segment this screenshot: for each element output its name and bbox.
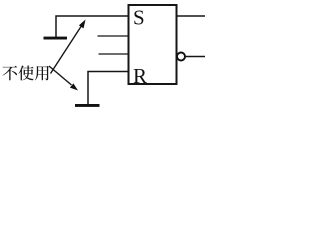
- wire unused input stub 1: [98, 35, 129, 37]
- arrow to R input wire: [49, 66, 78, 91]
- svg-text:S: S: [133, 6, 145, 30]
- arrow to S input wire: [51, 20, 86, 74]
- wire Q output: [177, 15, 205, 17]
- inverter bubble on Q-bar output: [177, 53, 185, 61]
- label 不使用 (not used): [2, 65, 49, 80]
- level bar top: [44, 37, 68, 40]
- svg-text:R: R: [133, 64, 147, 88]
- wire S input (from high-level bar to S pin): [56, 16, 128, 38]
- wire Q-bar output: [185, 56, 205, 58]
- IC box U1 (S-R latch body): [129, 5, 177, 84]
- wire R input (from R pin to bottom bar): [88, 72, 128, 105]
- wire unused input stub 2: [99, 53, 129, 55]
- level bar bottom: [75, 104, 100, 107]
